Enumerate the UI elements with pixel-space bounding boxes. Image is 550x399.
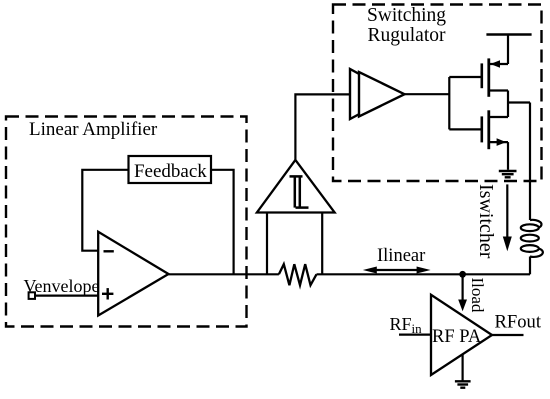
svg-text:Iswitcher: Iswitcher [475,184,497,259]
svg-text:Iload: Iload [468,278,487,313]
svg-text:Feedback: Feedback [134,161,207,182]
svg-text:Ilinear: Ilinear [377,246,425,266]
svg-text:Linear Amplifier: Linear Amplifier [29,119,158,140]
svg-text:Rugulator: Rugulator [368,25,446,46]
svg-text:Venvelope: Venvelope [24,276,100,296]
svg-text:RFin: RFin [390,314,423,336]
svg-text:RF PA: RF PA [432,327,482,347]
svg-text:Switching: Switching [367,5,446,26]
svg-text:RFout: RFout [495,312,542,333]
